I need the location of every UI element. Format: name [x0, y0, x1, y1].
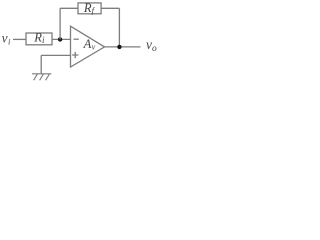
- op-amp U1 triangle: [71, 26, 105, 67]
- resistor Ri: [26, 33, 52, 45]
- resistor Rf: [78, 3, 101, 14]
- wire feedback left to Rf: [60, 7, 78, 9]
- svg-text:vo: vo: [146, 37, 157, 54]
- op-amp inverting input minus sign: [74, 38, 79, 40]
- wire non-inverting input: [41, 54, 70, 56]
- svg-text:Av: Av: [83, 37, 96, 52]
- wire down to ground: [40, 55, 42, 73]
- ground: [32, 74, 51, 81]
- svg-text:vi: vi: [2, 30, 11, 46]
- op-amp non-inverting input plus sign: [72, 52, 78, 58]
- wire Ri to inverting input: [52, 38, 71, 40]
- node A junction dot: [58, 37, 62, 41]
- wire vi to Ri: [13, 38, 26, 40]
- wire node A up to feedback: [59, 8, 61, 39]
- wire op-amp output: [105, 46, 141, 48]
- wire feedback down to output node: [118, 8, 120, 47]
- wire Rf to output branch: [101, 7, 119, 9]
- node B output junction dot: [117, 45, 121, 49]
